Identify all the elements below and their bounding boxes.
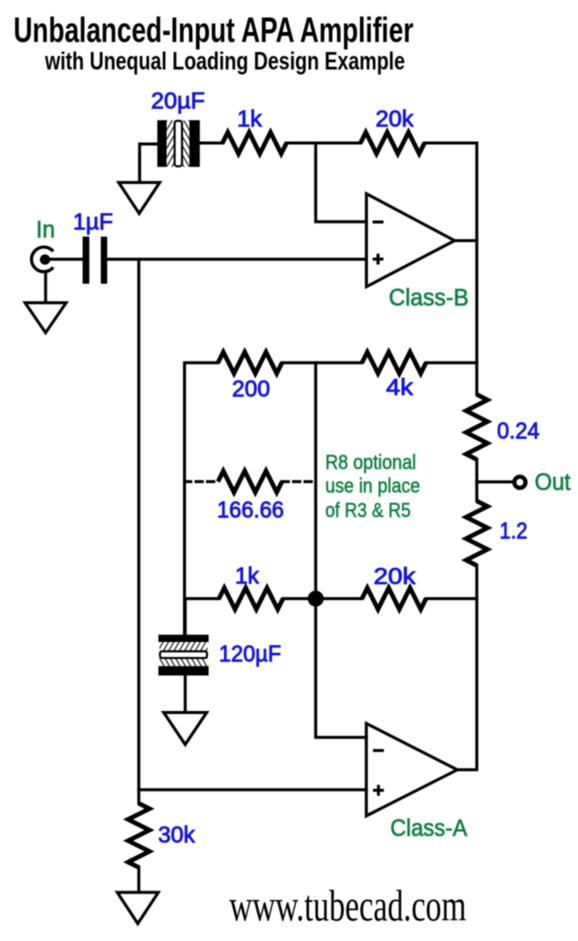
svg-text:20µF: 20µF: [151, 87, 205, 113]
svg-text:Unbalanced-Input APA Amplifier: Unbalanced-Input APA Amplifier: [14, 11, 414, 50]
svg-text:20k: 20k: [376, 106, 415, 132]
svg-text:166.66: 166.66: [217, 497, 284, 523]
svg-text:200: 200: [232, 376, 270, 402]
svg-text:In: In: [36, 217, 55, 244]
svg-text:120µF: 120µF: [219, 640, 281, 666]
svg-text:1.2: 1.2: [500, 518, 528, 544]
svg-text:4k: 4k: [386, 374, 414, 400]
svg-text:1k: 1k: [235, 563, 259, 589]
svg-text:Class-B: Class-B: [389, 284, 469, 311]
svg-text:with Unequal Loading Design Ex: with Unequal Loading Design Example: [44, 47, 405, 75]
svg-text:1µF: 1µF: [73, 208, 113, 234]
svg-text:20k: 20k: [374, 563, 417, 589]
svg-text:R8 optional: R8 optional: [325, 451, 416, 474]
svg-text:Out: Out: [535, 469, 571, 496]
svg-text:0.24: 0.24: [497, 417, 540, 443]
svg-text:1k: 1k: [237, 106, 263, 132]
svg-text:of R3 & R5: of R3 & R5: [325, 499, 411, 522]
svg-text:www.tubecad.com: www.tubecad.com: [229, 882, 466, 931]
svg-text:use in place: use in place: [325, 475, 420, 498]
svg-text:30k: 30k: [158, 822, 195, 848]
svg-text:Class-A: Class-A: [390, 815, 467, 842]
